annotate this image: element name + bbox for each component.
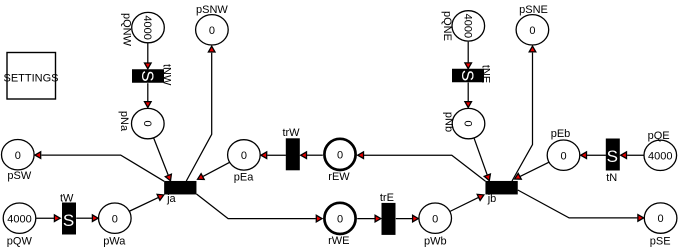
svg-text:0: 0 [112, 213, 118, 225]
arc ja to pSNW [186, 46, 215, 181]
svg-text:SETTINGS: SETTINGS [3, 73, 58, 85]
place pQNE [441, 11, 485, 41]
arc jb to pSNE [512, 46, 536, 181]
place rEW [324, 139, 355, 183]
arc tN to pEb [581, 152, 606, 159]
place pNb [443, 108, 485, 138]
svg-text:trE: trE [380, 192, 394, 204]
arc jb to rEW [358, 152, 486, 181]
svg-text:S: S [607, 147, 618, 166]
arc pWb to jb [450, 194, 484, 211]
arc pQNW to tNW [145, 43, 152, 69]
arc pQNE to tNE [465, 42, 472, 69]
svg-text:pWa: pWa [103, 236, 126, 248]
svg-text:ja: ja [166, 193, 176, 205]
arc ja to pSW [35, 152, 164, 182]
transition trW [282, 127, 300, 171]
place pSNW [196, 4, 229, 45]
svg-text:pSE: pSE [650, 235, 671, 247]
svg-text:0: 0 [209, 25, 215, 37]
svg-text:pNa: pNa [118, 111, 130, 132]
svg-text:0: 0 [337, 214, 343, 226]
place pEb [547, 128, 580, 171]
svg-text:pNb: pNb [443, 112, 455, 132]
place pQE [644, 130, 677, 171]
transition jb [485, 181, 517, 205]
place pQW [3, 203, 36, 248]
svg-text:trW: trW [282, 127, 300, 139]
transition tNW [132, 64, 172, 86]
place rWE [324, 203, 355, 247]
place pSW [2, 140, 35, 183]
settings box [3, 53, 58, 100]
svg-text:tNE: tNE [480, 65, 492, 83]
arc pEa to ja [198, 162, 230, 179]
place pSE [644, 203, 677, 247]
svg-text:0: 0 [432, 213, 438, 225]
svg-text:tNW: tNW [160, 64, 172, 86]
svg-text:4000: 4000 [461, 14, 473, 38]
svg-text:rEW: rEW [328, 171, 350, 183]
svg-text:S: S [458, 70, 477, 81]
transition tW [60, 193, 76, 235]
svg-text:4000: 4000 [141, 15, 153, 39]
svg-text:pSW: pSW [7, 170, 31, 182]
transition trE [380, 192, 396, 235]
svg-text:pEa: pEa [234, 171, 254, 183]
svg-text:tW: tW [60, 193, 74, 205]
place pQNW [121, 12, 165, 46]
arc jb to pSE [518, 190, 644, 221]
arc trE to pWb [396, 215, 419, 222]
svg-text:0: 0 [560, 150, 566, 162]
place pWb [419, 203, 452, 247]
transition ja [164, 181, 196, 205]
transition tNE [452, 65, 492, 83]
arc rEW to trW [301, 152, 323, 159]
svg-text:tN: tN [606, 172, 617, 184]
svg-text:0: 0 [462, 121, 474, 127]
arc tW to pWa [76, 215, 98, 222]
svg-text:pEb: pEb [551, 128, 571, 140]
arc trW to pEa [261, 152, 286, 159]
svg-text:pQNW: pQNW [121, 13, 133, 47]
svg-text:S: S [63, 211, 74, 230]
svg-text:0: 0 [337, 150, 343, 162]
arc pWa to ja [129, 194, 164, 211]
arc ja to rWE [197, 194, 323, 222]
arc pQE to tN [621, 152, 644, 159]
svg-text:pSNW: pSNW [196, 4, 228, 16]
arc rWE to trE [357, 215, 381, 222]
svg-text:S: S [138, 70, 157, 81]
arc pNb to jb [474, 139, 490, 181]
arc tNE to pNb [465, 83, 472, 108]
svg-text:pWb: pWb [424, 235, 447, 247]
place pNa [118, 108, 164, 138]
svg-text:4000: 4000 [7, 213, 31, 225]
arc pQW to tW [36, 215, 60, 222]
svg-text:pQE: pQE [648, 130, 670, 142]
svg-text:pSNE: pSNE [519, 4, 548, 16]
svg-text:0: 0 [529, 25, 535, 37]
transition tN [606, 139, 620, 184]
svg-text:0: 0 [15, 150, 21, 162]
svg-text:0: 0 [141, 121, 153, 127]
arc tNW to pNa [145, 83, 152, 107]
place pWa [99, 203, 132, 248]
arc pEb to jb [515, 162, 549, 179]
svg-text:pQNE: pQNE [441, 11, 453, 41]
svg-text:rWE: rWE [328, 235, 349, 247]
svg-text:0: 0 [241, 150, 247, 162]
arc pNa to ja [154, 138, 172, 181]
svg-text:0: 0 [658, 213, 664, 225]
svg-text:4000: 4000 [648, 150, 672, 162]
svg-text:pQW: pQW [7, 236, 33, 248]
svg-text:jb: jb [487, 193, 497, 205]
place pSNE [516, 4, 549, 45]
place pEa [228, 140, 261, 184]
